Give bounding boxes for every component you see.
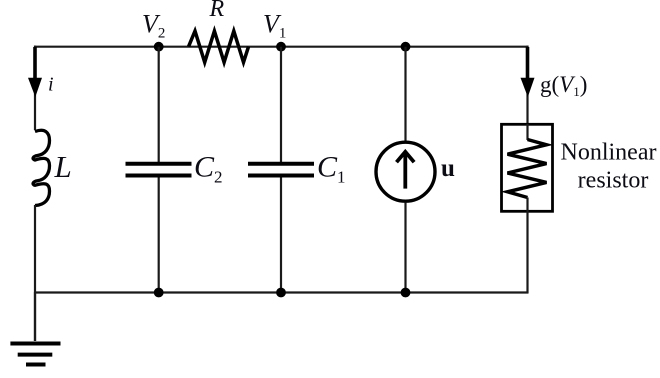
arrow g(V1) (521, 47, 535, 97)
wire C1 branch upper (280, 47, 282, 162)
label Nonlinear resistor (561, 140, 657, 194)
wire left branch mid (34, 97, 36, 130)
nonlinear resistor box (502, 124, 553, 211)
svg-text:g(V1): g(V1) (540, 72, 587, 99)
svg-text:i: i (48, 74, 54, 96)
capacitor C1 (248, 164, 314, 176)
capacitor C2 (126, 164, 192, 176)
wire source branch lower (404, 203, 406, 294)
node V2 (154, 42, 164, 52)
ground (10, 344, 60, 365)
node source bottom (401, 288, 411, 298)
wire C2 branch upper (158, 47, 160, 162)
wire bottom horizontal (34, 291, 529, 293)
svg-text:V1: V1 (263, 10, 286, 42)
wire right branch upper (526, 46, 528, 97)
svg-text:R: R (209, 0, 225, 22)
svg-text:C2: C2 (194, 151, 223, 187)
svg-text:C1: C1 (317, 151, 346, 187)
svg-text:resistor: resistor (578, 168, 649, 194)
node C2 bottom (154, 288, 164, 298)
current source u (376, 142, 435, 201)
svg-text:V2: V2 (142, 10, 165, 42)
inductor L (33, 130, 49, 205)
wire top horizontal (34, 46, 529, 48)
node source top (401, 42, 411, 52)
svg-text:L: L (54, 149, 72, 184)
wire ground stub (34, 293, 36, 342)
node V1 (276, 42, 286, 52)
arrow current i (28, 47, 42, 97)
wire source branch upper (404, 47, 406, 142)
node C1 bottom (276, 288, 286, 298)
wire C2 branch lower (158, 178, 160, 294)
wire left branch lower (34, 205, 36, 293)
svg-text:Nonlinear: Nonlinear (561, 140, 657, 166)
nonlinear resistor element (508, 124, 547, 211)
resistor R (189, 31, 249, 62)
wire right branch to box (526, 97, 528, 124)
wire left branch upper (34, 46, 36, 97)
svg-text:u: u (441, 155, 455, 182)
wire C1 branch lower (280, 178, 282, 294)
wire right branch lower (526, 211, 528, 293)
